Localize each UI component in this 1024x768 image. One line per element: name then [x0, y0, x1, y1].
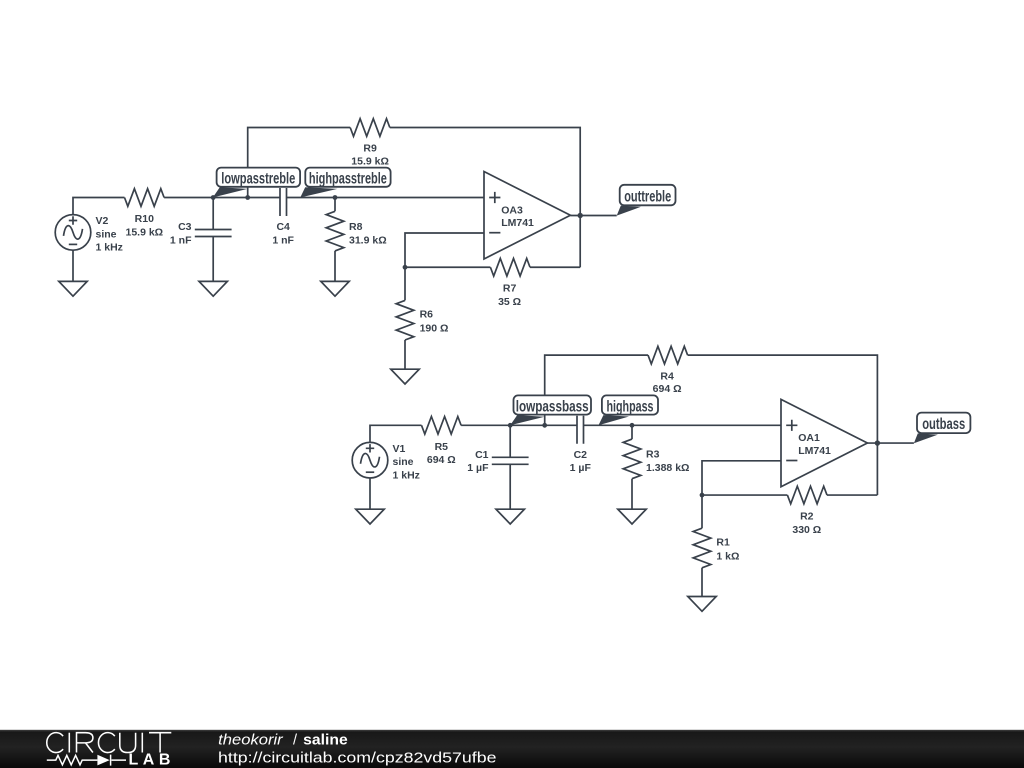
- svg-text:R5: R5: [435, 441, 449, 453]
- svg-text:R1: R1: [716, 536, 730, 548]
- svg-text:35 Ω: 35 Ω: [498, 296, 521, 308]
- svg-text:V2: V2: [96, 215, 109, 227]
- svg-text:outtreble: outtreble: [624, 188, 671, 205]
- svg-text:C2: C2: [574, 449, 588, 461]
- svg-text:1.388 kΩ: 1.388 kΩ: [646, 462, 689, 474]
- svg-text:V1: V1: [393, 443, 406, 455]
- svg-text:sine: sine: [96, 228, 117, 240]
- svg-text:saline: saline: [303, 732, 348, 748]
- svg-text:sine: sine: [393, 456, 414, 468]
- svg-text:highpass: highpass: [607, 398, 654, 415]
- svg-text:http://circuitlab.com/cpz82vd5: http://circuitlab.com/cpz82vd57ufbe: [218, 749, 497, 766]
- svg-text:1 kHz: 1 kHz: [96, 242, 123, 254]
- svg-text:31.9 kΩ: 31.9 kΩ: [349, 234, 387, 246]
- svg-text:1 nF: 1 nF: [272, 234, 294, 246]
- svg-text:330 Ω: 330 Ω: [792, 524, 821, 536]
- svg-text:R10: R10: [135, 213, 154, 225]
- svg-text:R6: R6: [420, 309, 434, 321]
- svg-text:OA3: OA3: [501, 204, 523, 216]
- svg-text:R3: R3: [646, 449, 660, 461]
- svg-text:C1: C1: [475, 449, 489, 461]
- svg-text:1 nF: 1 nF: [170, 234, 192, 246]
- svg-text:1 kΩ: 1 kΩ: [716, 550, 739, 562]
- svg-text:1 µF: 1 µF: [570, 462, 592, 474]
- svg-text:1 µF: 1 µF: [467, 462, 489, 474]
- svg-text:C4: C4: [276, 221, 290, 233]
- svg-text:R7: R7: [503, 283, 517, 295]
- svg-text:C3: C3: [178, 221, 192, 233]
- svg-text:15.9 kΩ: 15.9 kΩ: [125, 226, 163, 238]
- svg-text:15.9 kΩ: 15.9 kΩ: [351, 155, 389, 167]
- svg-text:OA1: OA1: [798, 432, 820, 444]
- svg-text:1 kHz: 1 kHz: [393, 469, 420, 481]
- svg-text:outbass: outbass: [922, 416, 965, 433]
- svg-text:R9: R9: [363, 143, 377, 155]
- svg-text:LM741: LM741: [798, 445, 831, 457]
- svg-text:lowpasstreble: lowpasstreble: [221, 171, 295, 188]
- svg-text:theokorir: theokorir: [218, 732, 284, 748]
- svg-text:694 Ω: 694 Ω: [653, 383, 682, 395]
- svg-text:694 Ω: 694 Ω: [427, 454, 456, 466]
- svg-text:R2: R2: [800, 510, 814, 522]
- svg-text:LAB: LAB: [129, 752, 175, 768]
- svg-text:R4: R4: [660, 370, 674, 382]
- svg-text:lowpassbass: lowpassbass: [516, 398, 589, 415]
- svg-text:R8: R8: [349, 221, 363, 233]
- svg-text:190 Ω: 190 Ω: [420, 323, 449, 335]
- svg-text:LM741: LM741: [501, 217, 534, 229]
- svg-text:highpasstreble: highpasstreble: [309, 171, 387, 188]
